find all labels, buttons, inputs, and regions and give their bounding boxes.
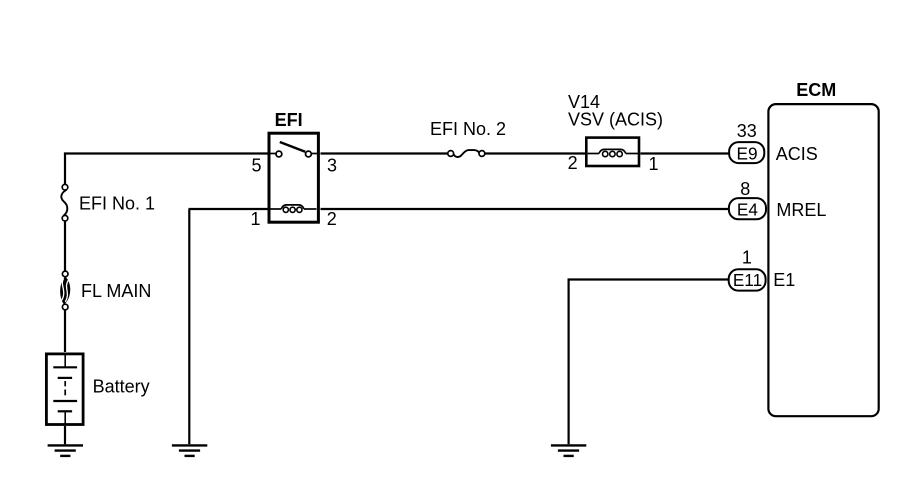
svg-text:33: 33 xyxy=(737,121,757,141)
svg-text:ECM: ECM xyxy=(796,80,836,100)
svg-text:2: 2 xyxy=(327,209,337,229)
svg-text:VSV (ACIS): VSV (ACIS) xyxy=(568,109,663,129)
svg-text:E4: E4 xyxy=(737,200,758,220)
svg-text:1: 1 xyxy=(742,248,752,268)
svg-text:E11: E11 xyxy=(733,270,762,290)
svg-text:8: 8 xyxy=(740,179,750,199)
svg-text:5: 5 xyxy=(252,155,262,175)
svg-text:1: 1 xyxy=(251,209,261,229)
svg-text:EFI: EFI xyxy=(275,110,303,130)
svg-text:ACIS: ACIS xyxy=(776,144,818,164)
svg-text:2: 2 xyxy=(568,153,578,173)
svg-text:EFI No. 1: EFI No. 1 xyxy=(79,194,155,214)
svg-text:EFI No. 2: EFI No. 2 xyxy=(430,119,506,139)
svg-text:FL MAIN: FL MAIN xyxy=(81,281,151,301)
svg-text:E1: E1 xyxy=(773,270,795,290)
svg-text:3: 3 xyxy=(327,155,337,175)
svg-text:1: 1 xyxy=(649,154,659,174)
svg-text:MREL: MREL xyxy=(776,200,826,220)
svg-text:Battery: Battery xyxy=(93,377,150,397)
svg-text:E9: E9 xyxy=(736,144,757,164)
